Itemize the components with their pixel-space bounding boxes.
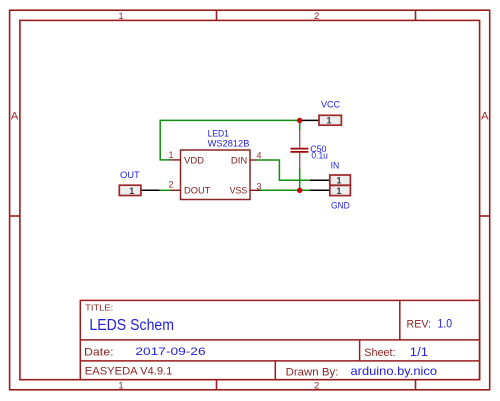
svg-text:WS2812B: WS2812B: [208, 138, 250, 149]
svg-text:4: 4: [257, 151, 262, 161]
svg-text:VSS: VSS: [230, 185, 248, 196]
svg-text:DIN: DIN: [231, 155, 247, 166]
svg-text:1: 1: [118, 381, 123, 392]
svg-text:1: 1: [336, 176, 341, 186]
svg-text:DOUT: DOUT: [184, 185, 211, 196]
svg-text:VCC: VCC: [321, 100, 340, 111]
svg-text:3: 3: [257, 181, 262, 191]
svg-text:1/1: 1/1: [410, 347, 428, 359]
svg-text:1.0: 1.0: [438, 318, 453, 330]
svg-text:Date:: Date:: [84, 346, 114, 358]
svg-text:1: 1: [118, 11, 123, 22]
svg-text:2: 2: [168, 180, 173, 190]
svg-text:A: A: [11, 110, 19, 122]
svg-text:Drawn By:: Drawn By:: [286, 366, 339, 378]
svg-text:IN: IN: [331, 161, 340, 172]
svg-text:TITLE:: TITLE:: [85, 303, 113, 313]
svg-text:EASYEDA V4.9.1: EASYEDA V4.9.1: [85, 365, 173, 377]
svg-text:2017-09-26: 2017-09-26: [135, 346, 205, 358]
svg-text:1: 1: [336, 186, 341, 196]
svg-text:Sheet:: Sheet:: [364, 347, 395, 359]
svg-text:0.1u: 0.1u: [311, 151, 328, 162]
svg-text:GND: GND: [331, 201, 350, 212]
svg-text:arduino.by.nico: arduino.by.nico: [351, 364, 438, 378]
svg-text:1: 1: [129, 186, 134, 196]
svg-text:A: A: [481, 110, 489, 122]
svg-text:OUT: OUT: [120, 170, 140, 181]
svg-text:REV:: REV:: [407, 318, 432, 330]
svg-text:1: 1: [168, 150, 173, 160]
svg-text:VDD: VDD: [184, 155, 204, 166]
svg-text:1: 1: [326, 116, 331, 126]
svg-text:2: 2: [314, 11, 319, 22]
svg-text:LEDS Schem: LEDS Schem: [89, 317, 174, 334]
svg-text:2: 2: [314, 381, 319, 392]
